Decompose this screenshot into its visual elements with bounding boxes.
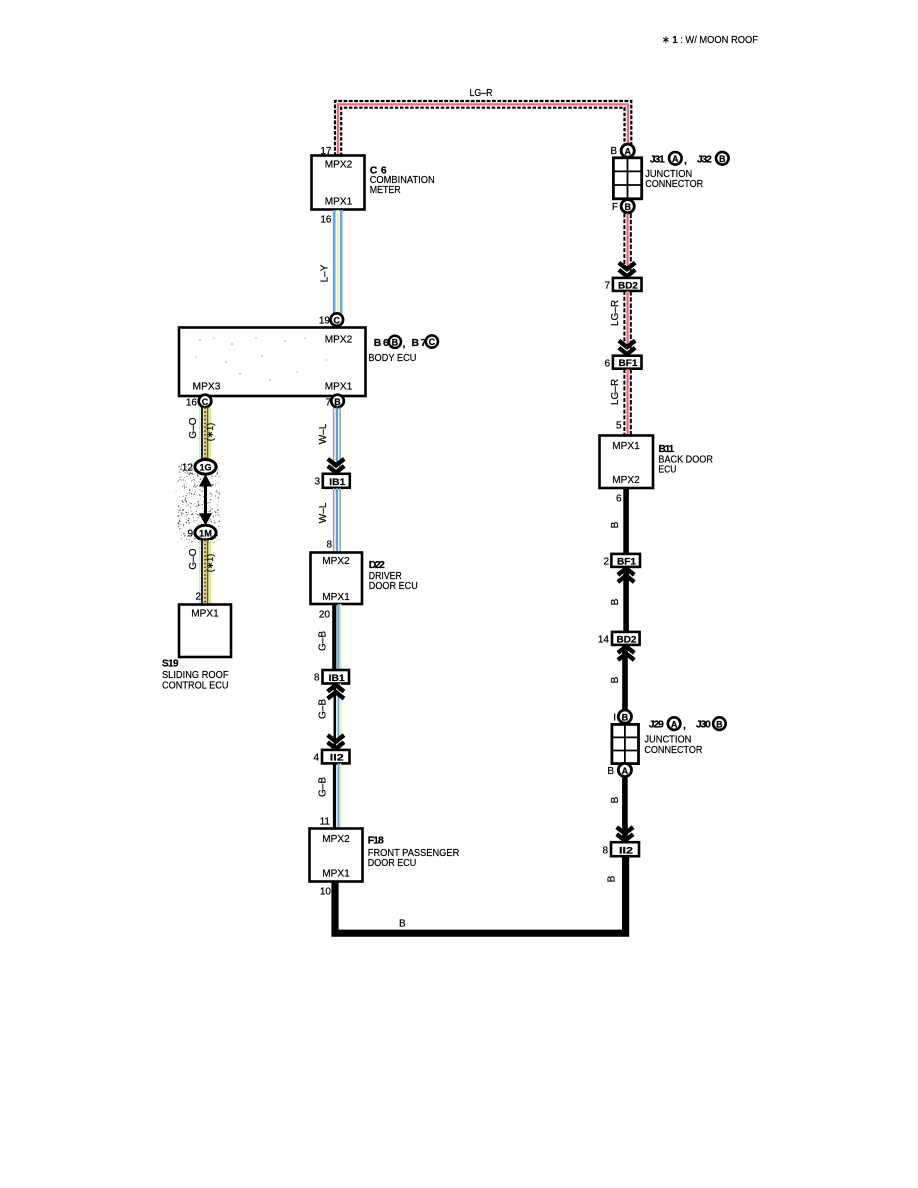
svg-text:14: 14 [598,635,610,646]
double arrow between 1G and 1M [199,474,212,525]
svg-text:,: , [683,720,686,732]
wire G-O lower segment [200,540,210,604]
svg-text:B: B [334,397,341,407]
svg-text:C: C [429,337,436,347]
svg-text:BF1: BF1 [619,358,639,369]
svg-text:,: , [403,338,406,350]
svg-text:B: B [624,202,631,212]
wire B from B11 to BF1(2) [623,488,629,554]
svg-text:II2: II2 [619,845,633,856]
svg-text:A: A [671,719,678,729]
wire G-B from II2(4) to F18 pin 11 [335,763,341,828]
svg-text:MPX1: MPX1 [322,869,350,880]
node C circle (pin 19) [331,313,344,326]
wire B junction 2 to II2(8) [622,777,628,841]
svg-text:B: B [610,146,617,157]
svg-text:1G: 1G [200,463,212,474]
node C circle (body pin 16) [199,395,212,408]
svg-text:IB1: IB1 [329,477,346,488]
svg-text:MPX1: MPX1 [325,197,353,208]
connector box BF1 (2) [611,554,640,567]
svg-text:DOOR ECU: DOOR ECU [369,581,418,592]
svg-text:CONTROL ECU: CONTROL ECU [162,681,229,692]
svg-text:B: B [610,598,621,605]
svg-text:12: 12 [182,463,194,474]
svg-text:G–B: G–B [318,631,329,651]
svg-text:MPX2: MPX2 [322,556,350,567]
speckle patch around 1G/1M [175,461,219,545]
svg-text:B: B [607,766,614,777]
svg-text:DOOR ECU: DOOR ECU [368,858,417,869]
chevron into IB1 [328,459,344,473]
svg-text:MPX2: MPX2 [612,475,640,486]
node A circle (junction 2 bottom) [618,763,631,776]
svg-text:IB1: IB1 [329,673,346,684]
svg-text:B 6: B 6 [374,337,389,349]
svg-text:LG–R: LG–R [610,379,621,405]
connector box BF1 (6) [613,356,642,369]
svg-text:G–B: G–B [318,699,329,719]
connector box BD2 (7) [613,278,642,291]
svg-text:I: I [613,713,616,724]
wire LG-R pink core [338,104,628,156]
connector oval 1G [195,460,216,475]
svg-text:10: 10 [320,887,332,898]
sliding roof control ECU S19 box [179,605,231,658]
driver door ECU D22 box [311,553,363,605]
node B circle (junction 2 top) [618,710,631,723]
svg-text:∗ 1 : W/ MOON ROOF: ∗ 1 : W/ MOON ROOF [662,34,758,46]
svg-text:2: 2 [603,557,609,568]
svg-text:W–L: W–L [318,423,329,444]
chevron into BD2 [619,263,635,277]
svg-text:6: 6 [604,359,610,370]
svg-text:B: B [399,919,406,930]
svg-text:5: 5 [616,421,622,432]
connector box II2 (8) [611,842,639,856]
svg-text:A: A [672,154,679,164]
wire LG-R junction1 to BD2 [624,214,630,272]
body ECU interior scan noise [195,337,326,383]
svg-text:B11: B11 [658,443,674,455]
back door ECU B11 box [600,436,654,489]
svg-text:ECU: ECU [658,465,676,476]
svg-text:B: B [622,712,629,722]
svg-text:D22: D22 [369,559,385,571]
svg-text:8: 8 [326,540,332,551]
svg-text:16: 16 [186,398,198,409]
svg-text:19: 19 [319,316,331,327]
svg-text:B: B [716,719,723,729]
svg-text:B: B [610,676,621,683]
svg-text:20: 20 [319,610,331,621]
svg-text:J31: J31 [650,154,665,166]
svg-text:BD2: BD2 [618,280,638,291]
combination meter C6 box [312,156,365,210]
junction connector 1 grid box [613,158,641,199]
svg-text:MPX2: MPX2 [322,834,350,845]
svg-text:F: F [612,202,618,213]
node B circle (body pin 7) [331,395,344,408]
junction connector 2 grid box [612,724,639,763]
svg-text:G–O: G–O [188,548,199,569]
svg-text:G–B: G–B [318,777,329,797]
wire LG-R BD2 to BF1 [624,291,630,349]
svg-text:A: A [622,766,629,776]
chevron into BF1 [619,341,635,355]
svg-text:8: 8 [602,846,608,857]
svg-text:LG–R: LG–R [610,300,621,326]
node B circle (junction 1 bottom) [621,200,634,213]
wire G-B from D22 pin 20 to IB1 (8) [334,604,340,670]
svg-text:A: A [624,147,631,157]
svg-text:16: 16 [320,215,332,226]
wire L-Y from C6 pin16 to body ECU pin 19 (blue/yellow/blue) [333,210,336,314]
svg-text:C: C [334,315,341,325]
svg-text:SLIDING ROOF: SLIDING ROOF [162,670,229,681]
svg-text:B: B [719,154,726,164]
wire B thick black bottom run [335,855,626,933]
wire LG-R outer black dashed line [335,101,631,156]
svg-text:B: B [610,796,621,803]
svg-text:6: 6 [616,494,622,505]
svg-text:METER: METER [370,185,401,196]
svg-text:LG–R: LG–R [470,88,493,99]
svg-text:(∗1): (∗1) [205,423,215,442]
svg-text:2: 2 [195,592,201,603]
chevron into II2(8) [617,827,633,841]
svg-text:CONNECTOR: CONNECTOR [645,179,703,190]
svg-text:B: B [607,875,618,882]
svg-text:J29: J29 [649,719,664,731]
wire LG-R BF1 to B11 pin 5 [624,369,630,435]
connector box IB1 (3) [323,474,350,488]
svg-text:,: , [684,155,687,167]
svg-text:L–Y: L–Y [320,264,331,282]
wire G-O upper segment [200,408,210,461]
svg-text:CONNECTOR: CONNECTOR [644,745,702,756]
front passenger door ECU F18 box [310,829,363,882]
chevron up into IB1(8) [328,685,344,699]
svg-text:S19: S19 [162,659,179,670]
connector box II2 (4) [322,750,350,764]
connector box IB1 (8) [323,670,350,684]
chevron up into BF1(2) [618,568,634,582]
wire B BF1(2) to BD2(14) [623,567,629,632]
wire W-L from body pin 7 to IB1 [334,408,341,468]
svg-text:F18: F18 [368,835,384,847]
svg-text:BF1: BF1 [617,556,637,567]
svg-text:J32: J32 [697,154,712,166]
svg-text:3: 3 [314,477,320,488]
node A circle (junction 1 top) [621,144,634,157]
svg-text:8: 8 [314,673,320,684]
connector oval 1M [195,525,216,540]
svg-text:W–L: W–L [318,502,329,523]
svg-text:MPX1: MPX1 [325,382,353,393]
svg-text:9: 9 [187,529,193,540]
connector box BD2 (14) [612,632,640,645]
svg-text:II2: II2 [330,753,344,764]
chevron up into BD2(14) [618,646,634,660]
svg-text:1M: 1M [199,528,212,539]
wire G-B between IB1(8) and II2(4) [335,684,341,751]
svg-text:B: B [392,337,399,347]
wire LG-R inner black dashed line [341,108,624,156]
svg-text:MPX1: MPX1 [191,609,219,620]
svg-text:J30: J30 [696,719,711,731]
svg-text:B 7: B 7 [412,337,427,349]
svg-text:11: 11 [320,817,331,828]
svg-text:MPX2: MPX2 [325,335,353,346]
svg-text:MPX1: MPX1 [322,592,350,603]
svg-text:MPX3: MPX3 [193,382,221,393]
svg-text:4: 4 [313,753,319,764]
wire B BD2(14) to junction 2 [622,645,628,710]
chevron down into II2(4) [328,735,344,749]
svg-text:MPX1: MPX1 [612,441,640,452]
svg-text:MPX2: MPX2 [325,160,353,171]
svg-text:BD2: BD2 [617,634,637,645]
svg-text:7: 7 [604,281,610,292]
svg-text:C: C [202,397,209,407]
svg-text:(∗1): (∗1) [205,554,215,573]
svg-text:G–O: G–O [188,417,199,438]
svg-text:B: B [610,521,621,528]
svg-text:BODY ECU: BODY ECU [368,353,416,364]
wire W-L from IB1 to D22 pin 8 [334,488,341,552]
body ECU box [179,328,366,397]
